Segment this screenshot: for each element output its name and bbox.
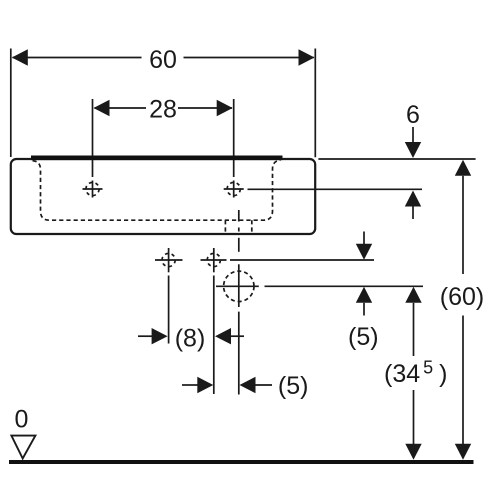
siphon cross h [216,285,259,287]
dim60 ext line left [10,49,12,158]
dim34.5 arrow up [405,287,421,303]
dim5b right tail [256,384,273,386]
bowl hidden outline dashed [33,160,281,220]
dim6 tick [412,127,414,143]
fixing hole cross2 h [201,259,227,261]
dim5r top tail [363,232,365,245]
svg-text:28: 28 [149,96,177,124]
dim28 line right seg [178,107,232,109]
dim5r arrow down [356,244,372,260]
dim(60) line upper [462,176,464,274]
dim8 arrow right [152,328,168,344]
tap hole cross left h [83,188,103,190]
floor line [9,460,474,464]
dim(60) arrow up [455,160,471,176]
fixing hole cross1 v [168,248,170,272]
dim60 arrow left [12,49,28,65]
dim28 arrow right [217,100,233,116]
dim6 arrow down [405,142,421,158]
tap hole circle left dashed [86,182,99,195]
tap hole circle right dashed [227,182,240,195]
ref line basin top right [318,158,475,160]
dim8 left tail [138,335,152,337]
fixing hole circle2 dashed [207,253,220,266]
ext line below cross2 [213,276,215,395]
tap hole cross right h [224,188,244,190]
dim28 ext line right [233,99,235,177]
ref line siphon level [265,285,424,287]
dim34.5 arrow down [405,444,421,460]
svg-text:(5): (5) [278,372,309,400]
dim8 arrow left [215,328,231,344]
dim5b left tail [182,384,198,386]
dim60 ext line right [314,49,316,158]
ext line below cross1 [168,276,170,344]
fixing hole circle1 dashed [162,253,175,266]
fixing hole cross2 v [213,248,215,272]
dim28 ext line left [92,99,94,177]
dim28 arrow left [94,100,110,116]
dim(60) arrow down [455,444,471,460]
dim6 lower tail [412,207,414,220]
tap hole cross right v [233,181,235,198]
dim5r arrow up [356,287,372,303]
svg-text:(60): (60) [440,283,484,311]
dim5r arrow up tail [363,303,365,316]
dim60 line left seg [13,57,142,59]
dim(60) line lower [462,316,464,445]
dim60 line right seg [184,57,314,59]
dim28 line left seg [95,107,147,109]
dim5b arrow left [240,377,256,393]
dim5b arrow right [197,377,213,393]
dim60 arrow right [299,49,315,65]
drain recess dashed left [224,220,226,233]
drain center line segments [238,210,240,222]
svg-text:(8): (8) [175,324,206,352]
fixing hole cross1 h [155,259,183,261]
dim34.5 line upper [413,303,415,356]
dim34.5 line lower [413,390,415,444]
svg-text:(5): (5) [348,323,379,351]
basin rear rim thick line [31,156,283,161]
siphon circle dashed [224,271,254,301]
basin outer outline [11,159,315,234]
ref line tap hole level [248,188,423,190]
svg-text:6: 6 [406,101,420,129]
dim8 right tail [231,335,244,337]
ref line fixing level [230,259,374,261]
datum triangle [11,436,35,459]
tap hole cross left v [92,181,94,198]
drain recess dashed right [251,220,253,233]
svg-text:0: 0 [15,406,29,434]
svg-text:60: 60 [149,46,177,74]
dim6 arrow up [405,191,421,207]
